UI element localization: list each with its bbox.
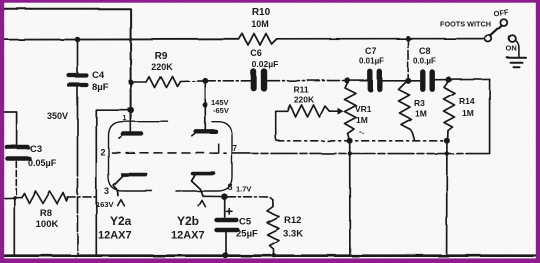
wire C3 entry from left [4,112,17,144]
resistor R11 [276,105,330,117]
probe arrow 1.7V [199,200,206,206]
node VR1 bottom [347,138,353,144]
node R9 tap [128,79,133,84]
bias rail y=141 (dash-dot) [277,140,447,142]
resistor R14 [444,81,455,140]
node grid rail crossing left [348,151,352,155]
footswitch pole [485,35,492,42]
capacitor C4 [77,42,79,74]
wire R8 to pin3 node [67,196,96,198]
node plate junction [128,107,134,113]
triode V2a plate lead [130,114,132,132]
wire VR1 column to bottom rail [349,141,351,255]
wire R14 column to bottom rail [446,141,448,255]
wire ON contact to ground [516,40,519,56]
node C7/C8 junction [405,78,411,84]
node V2b plate junction [202,78,208,84]
resistor R12 [267,200,279,255]
node footswitch branch [405,36,410,41]
ground symbol [507,57,526,59]
capacitor C5 [224,200,226,217]
footswitch lever [491,26,502,36]
node 145V measure point [203,102,208,107]
wire right column down to grid rail [489,79,491,153]
resistor R10 [239,34,277,46]
node R14 top [446,77,452,83]
node grid rail crossing right [445,151,449,155]
wire C6 to VR1 node [268,80,345,82]
triode V2b plate lead [204,83,206,131]
wire node8 to R12 [228,197,273,200]
wire C7 to C8 [383,80,420,82]
wire plate node to cathode column [96,110,127,254]
footswitch ON contact [509,35,516,42]
node rail crossing [129,38,132,41]
wire B+ top rail [4,9,131,110]
wire HT rail y=39.5 [4,38,239,40]
pin 7 tick [218,144,220,153]
wire V2b plate node to C6 [205,80,250,82]
triode V2a cathode [123,173,146,177]
grid wire (dashed) [112,152,226,155]
ground/bottom rail [4,254,537,257]
wire R9 to V2b plate node [181,80,204,83]
capacitor C6 [251,72,257,89]
node R8/C3 [13,196,17,200]
resistor R8 [22,192,68,204]
triode V2b plate [196,129,216,133]
wire R8 node entry from left [4,197,22,200]
capacitor C7 [368,72,373,90]
wire R9 feed [131,81,146,83]
footswitch OFF contact [500,19,507,26]
probe arrow 163V [118,200,125,206]
triode V2b cathode [193,172,214,176]
wire to C7 [347,80,367,82]
VR1 wiper arrow [330,110,338,112]
wire footswitch branch down [407,39,409,79]
resistor R9 [146,77,181,88]
potentiometer VR1 [345,83,357,141]
capacitor C3 [7,145,28,150]
node pin8 junction [221,193,228,200]
triode V2a plate [123,132,142,136]
node VR1 top [344,78,350,84]
wire R11 left leg down [276,111,277,141]
resistor R3 [399,82,415,141]
capacitor C8 [420,72,425,89]
grid return rail y=153 [232,152,490,154]
wire cathode to node 8 [203,195,221,197]
node R14 bottom [444,138,450,144]
wire C8 to right column [435,78,489,80]
node C4 tap [75,37,81,43]
wire R10 to footswitch [277,38,485,40]
tube envelope [109,122,169,191]
